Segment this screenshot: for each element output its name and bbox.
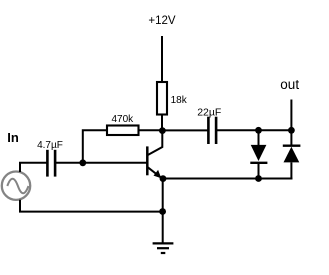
- ground symbol: [153, 243, 174, 253]
- wire from input node up to R2: [83, 130, 106, 163]
- AC source V1: [2, 172, 30, 200]
- wire top rail from C2 to diodes: [217, 129, 291, 131]
- wire from out label down through top rail: [290, 100, 292, 146]
- wire from R1 to collector node: [161, 115, 163, 131]
- diode D1 cathode-down: [250, 130, 267, 178]
- diode D2 cathode-up: [283, 146, 301, 180]
- capacitor C1 4.7uF left plate: [46, 150, 49, 177]
- wire from R2 to collector node: [139, 129, 163, 131]
- svg-text:+12V: +12V: [148, 15, 176, 27]
- node collector junction dot: [159, 127, 166, 134]
- svg-text:In: In: [7, 130, 19, 145]
- transistor Q1 collector lead: [148, 131, 163, 155]
- wire from C1 to input node and transistor base: [56, 162, 147, 164]
- wire from +12V to resistor R1: [161, 36, 163, 82]
- wire from collector node to C2: [163, 129, 208, 131]
- svg-text:22µF: 22µF: [197, 107, 221, 119]
- capacitor C1 4.7uF right plate: [54, 150, 57, 177]
- svg-text:4.7µF: 4.7µF: [37, 140, 63, 151]
- wire emitter rail to diodes: [163, 178, 292, 180]
- resistor R1 18k: [157, 82, 167, 115]
- node emitter junction dot: [160, 175, 167, 182]
- transistor Q1 emitter lead: [148, 167, 163, 179]
- node ground junction dot: [159, 208, 166, 215]
- wire emitter down to ground node: [162, 179, 164, 244]
- node diode D1 bottom junction dot: [255, 175, 262, 182]
- wire from AC source top to input line: [20, 163, 47, 172]
- node diode D2 top junction dot: [288, 127, 295, 134]
- svg-text:18k: 18k: [171, 95, 188, 106]
- svg-text:470k: 470k: [111, 114, 134, 125]
- node input junction dot: [79, 159, 86, 166]
- svg-text:out: out: [280, 77, 299, 92]
- node diode D1 top junction dot: [255, 127, 262, 134]
- capacitor C2 22uF left plate: [207, 117, 210, 144]
- wire from AC source bottom: [20, 200, 162, 212]
- transistor Q1 body bar: [146, 146, 149, 175]
- transistor Q1 emitter arrow: [154, 170, 162, 178]
- capacitor C2 22uF right plate: [215, 117, 218, 144]
- resistor R2 470k: [107, 126, 139, 136]
